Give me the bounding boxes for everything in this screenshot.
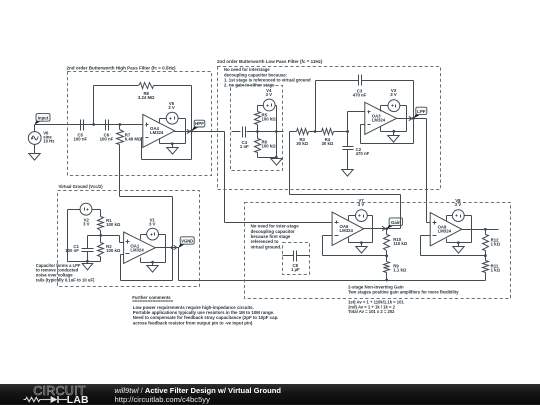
voltage source V4 — [263, 99, 275, 111]
wire bias node to box edge — [258, 131, 284, 133]
svg-text:will9twl / Active Filter Desig: will9twl / Active Filter Design w/ Virtu… — [115, 386, 282, 395]
node OA4 supply ground — [171, 142, 174, 145]
wire V5 to V- loop — [160, 119, 186, 144]
label C1 — [65, 244, 79, 253]
box C8 note — [283, 243, 310, 275]
voltage source V5 — [166, 112, 178, 124]
voltage source V3 — [388, 100, 400, 112]
wire R3 to R4 — [309, 131, 322, 133]
capacitor C6 — [106, 120, 109, 131]
svg-text:3.24 MΩ: 3.24 MΩ — [138, 95, 155, 100]
svg-text:100 kΩ: 100 kΩ — [262, 117, 277, 122]
label C6 — [100, 133, 114, 142]
label R7 — [125, 133, 142, 142]
ground bias network — [271, 158, 282, 166]
op-amp OA3 — [365, 102, 397, 134]
svg-text:30 kΩ: 30 kΩ — [296, 141, 308, 146]
wire OA8 feedback — [421, 236, 486, 256]
voltage source V7 — [356, 210, 368, 222]
wire OA8 V+ pin — [447, 216, 453, 222]
svg-text:http://circuitlab.com/c4bc5yy: http://circuitlab.com/c4bc5yy — [115, 395, 211, 404]
label LPF box — [217, 59, 323, 64]
wire OA3 V+ pin — [381, 106, 389, 112]
ground below C2 — [342, 170, 353, 177]
node OA1 supply ground — [151, 261, 154, 264]
svg-text:470 nF: 470 nF — [353, 93, 367, 98]
svg-text:================: ================ — [132, 299, 173, 304]
svg-text:30 kΩ: 30 kΩ — [321, 141, 333, 146]
wire OA1 feedback — [121, 248, 173, 281]
wire HPF out down to OA6 — [225, 132, 333, 223]
wire V7 to V- loop — [349, 216, 373, 243]
svg-text:10 Hz: 10 Hz — [43, 138, 54, 143]
label OA4 — [150, 126, 164, 135]
logo CIRCUIT text — [33, 384, 86, 398]
capacitor C2 — [343, 132, 354, 150]
wire OA1 V+ pin — [141, 235, 147, 240]
op-amp OA1 — [124, 232, 156, 263]
flag VGND — [174, 237, 195, 250]
box 2-stage gain — [245, 203, 511, 299]
label R4 — [321, 137, 333, 146]
footer title — [115, 386, 282, 395]
resistor R11 — [483, 256, 489, 281]
wire OA6 feedback — [323, 236, 387, 256]
node OA1 output junction — [171, 246, 174, 249]
node gnd rail — [86, 260, 89, 263]
op-amp OA6 — [332, 212, 364, 245]
wire OA4 V+ pin — [160, 119, 167, 124]
label R1 — [106, 218, 121, 227]
note text LPF — [224, 67, 311, 87]
wire OA1 output — [156, 247, 179, 249]
resistor R12 — [483, 230, 489, 256]
ground below OA1 — [147, 263, 158, 273]
label OA8 — [438, 225, 452, 234]
node OA4 output junction — [190, 130, 193, 133]
label V6 — [43, 131, 54, 144]
label R3 — [296, 137, 308, 146]
svg-text:Two stages positive gain ampli: Two stages positive gain amplifiers for … — [348, 290, 459, 295]
wire OA6 V+ pin — [349, 216, 356, 221]
flag Gain — [382, 218, 403, 231]
box 2nd order Butterworth Low Pass Filter — [218, 67, 441, 190]
label R12 — [491, 237, 501, 246]
label C2 — [356, 147, 370, 156]
logo wire-resistor-diode glyph — [24, 396, 68, 403]
wire R3 left lead — [290, 131, 297, 133]
logo LAB text — [67, 395, 89, 405]
label R2 — [106, 244, 121, 253]
footer bar — [0, 384, 540, 405]
wire up to OA3 + — [348, 112, 365, 132]
wire V2 right to R1 — [92, 210, 101, 217]
note text gain box — [251, 224, 300, 250]
wire V4 left to R5 — [258, 106, 264, 112]
label C4 — [240, 140, 249, 149]
ground below V6 — [29, 154, 40, 161]
ground below OA4 — [167, 144, 178, 155]
svg-text:470 nF: 470 nF — [356, 151, 370, 156]
svg-text:LM324: LM324 — [130, 248, 144, 253]
wire V8 to V- loop — [447, 216, 472, 243]
wire V1 to V- loop — [141, 235, 166, 263]
wire V2 left to gnd rail — [68, 210, 101, 262]
svg-text:110 kΩ: 110 kΩ — [393, 241, 408, 246]
resistor R10 — [384, 229, 390, 256]
svg-text:3 V: 3 V — [83, 221, 90, 226]
voltage source V8 — [452, 210, 464, 222]
wire C4 to bias node — [247, 131, 258, 133]
svg-text:2nd order Butterworth Low Pass: 2nd order Butterworth Low Pass Filter (f… — [217, 59, 323, 64]
node R12-R11 junction — [484, 254, 487, 257]
label HPF box — [67, 66, 177, 71]
label OA3 — [372, 114, 386, 123]
resistor R8 — [139, 83, 154, 89]
label R10 — [393, 237, 408, 246]
svg-text:100 kΩ: 100 kΩ — [106, 222, 121, 227]
flag LPF — [409, 107, 427, 121]
svg-text:100 kΩ: 100 kΩ — [262, 144, 277, 149]
resistor R5 — [255, 112, 261, 132]
resistor R7 — [117, 125, 124, 145]
svg-text:100 kΩ: 100 kΩ — [106, 248, 121, 253]
label R11 — [491, 263, 501, 272]
svg-text:Virtual Ground (Vcc/2): Virtual Ground (Vcc/2) — [59, 184, 104, 189]
resistor R2 — [98, 236, 104, 262]
wire C3 to output node — [362, 81, 414, 119]
wire junction to R8 — [94, 86, 139, 125]
footer url — [115, 395, 211, 404]
svg-text:LAB: LAB — [67, 395, 89, 405]
ground VG divider — [82, 262, 93, 270]
box bias network — [231, 86, 283, 171]
svg-text:VGND: VGND — [181, 238, 193, 243]
wire R4 to OA3 node — [334, 131, 348, 133]
wire OA6 output — [364, 228, 401, 230]
svg-text:3 V: 3 V — [266, 92, 273, 97]
svg-text:1.1 kΩ: 1.1 kΩ — [393, 268, 407, 273]
voltage source V6 (sine) — [28, 132, 41, 154]
svg-text:LM324: LM324 — [438, 229, 452, 234]
label C5 — [73, 133, 87, 142]
flag Input — [35, 114, 50, 125]
wire input net — [35, 125, 143, 133]
node OA6 output junction — [385, 227, 388, 230]
node OA8 output junction — [484, 228, 487, 231]
wire OA8 output — [462, 229, 499, 231]
node C5-C6 junction — [92, 123, 95, 126]
svg-text:across feedback resistor from: across feedback resistor from output pin… — [133, 320, 253, 325]
svg-text:3 V: 3 V — [390, 92, 397, 97]
label V1 — [149, 217, 156, 226]
box Virtual Ground — [58, 191, 200, 287]
node C3 tap — [314, 130, 317, 133]
svg-text:Total Av = 101 x 2 = 202: Total Av = 101 x 2 = 202 — [348, 309, 395, 314]
wire C2 to ground — [347, 150, 349, 170]
note text capacitor LPF — [36, 263, 95, 283]
flag HPF — [187, 120, 205, 134]
label R8 — [138, 91, 155, 100]
resistor R3 — [297, 129, 309, 135]
wire VGND distribution — [179, 248, 486, 281]
capacitor C8 — [283, 251, 310, 262]
wire R6 to ground — [258, 153, 277, 158]
wire OA3 feedback — [361, 119, 414, 144]
wire OA3 output — [397, 118, 427, 120]
svg-text:3 V: 3 V — [358, 202, 365, 207]
svg-text:100 nF: 100 nF — [73, 137, 87, 142]
svg-text:2nd order Butterworth High Pas: 2nd order Butterworth High Pass Filter (… — [67, 66, 177, 71]
ground below OA6 — [356, 243, 367, 254]
svg-text:HPF: HPF — [195, 121, 204, 126]
label R6 — [262, 140, 277, 149]
text gain section — [348, 284, 459, 294]
wire LPF input — [232, 131, 241, 133]
node V4 return on bias wire — [275, 130, 278, 133]
node R10-R9 junction — [385, 255, 388, 258]
svg-text:3 V: 3 V — [149, 221, 156, 226]
label R9 — [393, 264, 407, 273]
label R5 — [262, 113, 277, 122]
label C8 — [291, 263, 300, 272]
svg-text:1 kΩ: 1 kΩ — [491, 267, 501, 272]
label V4 — [266, 88, 273, 97]
label V8 — [455, 198, 462, 207]
ground below OA8 — [453, 243, 464, 254]
capacitor C3 — [359, 75, 362, 86]
node OA6 supply ground — [360, 241, 363, 244]
label V2 — [83, 217, 90, 226]
op-amp OA8 — [430, 213, 462, 246]
wire R7 to VGND — [120, 145, 173, 248]
resistor R6 — [255, 132, 261, 153]
node bias ground — [275, 156, 278, 159]
svg-text:LM324: LM324 — [150, 130, 164, 135]
svg-text:1 µF: 1 µF — [291, 267, 300, 272]
svg-text:100 nF: 100 nF — [100, 137, 114, 142]
voltage source V1 — [147, 228, 159, 240]
node OA3 supply ground — [393, 130, 396, 133]
resistor R9 — [384, 256, 390, 281]
text gain calc — [348, 300, 404, 315]
svg-text:rails (typically 0.1uF to 10 u: rails (typically 0.1uF to 10 uF) — [36, 278, 95, 283]
svg-text:Need to compensate for feedbac: Need to compensate for feedback stray ca… — [133, 315, 279, 320]
wire V3 to V- loop — [381, 106, 407, 132]
svg-text:Input: Input — [38, 115, 49, 120]
node OA3 output junction — [412, 117, 415, 120]
svg-text:6.49 MΩ: 6.49 MΩ — [125, 137, 142, 142]
wire R8 to output node — [154, 86, 192, 132]
wire OA4 feedback (- to output) — [142, 132, 192, 160]
wire V4 right down — [276, 106, 277, 158]
ground below OA3 — [388, 132, 399, 143]
svg-text:Gain: Gain — [391, 220, 401, 225]
resistor R4 — [322, 129, 334, 135]
voltage source V2 — [80, 203, 92, 215]
svg-text:LPF: LPF — [417, 109, 426, 114]
node C6-R7 junction — [119, 123, 122, 126]
label V5 — [168, 101, 175, 110]
svg-text:3 V: 3 V — [168, 105, 175, 110]
label OA6 — [340, 224, 354, 233]
node bias divider — [256, 130, 259, 133]
svg-text:1 kΩ: 1 kΩ — [491, 241, 501, 246]
node R4-C2 junction — [346, 130, 349, 133]
text further comments — [132, 295, 278, 326]
node A divider mid — [99, 234, 102, 237]
capacitor C1 — [82, 236, 94, 262]
label OA1 — [130, 244, 144, 253]
label C3 — [353, 89, 367, 98]
svg-text:100 nF: 100 nF — [65, 248, 79, 253]
svg-text:LM324: LM324 — [372, 118, 386, 123]
resistor R1 — [98, 217, 104, 236]
capacitor C4 — [243, 127, 246, 138]
svg-text:3 V: 3 V — [455, 202, 462, 207]
wire C3 up — [316, 81, 359, 132]
wire Gain to LPF input riser — [290, 132, 401, 229]
wire LPF out down to OA8 — [427, 119, 431, 223]
box 2nd order Butterworth High Pass Filter — [68, 72, 212, 176]
op-amp OA4 — [143, 114, 175, 147]
capacitor C5 — [81, 120, 84, 131]
wire OA4 output — [175, 131, 225, 133]
label V3 — [390, 88, 397, 97]
wire node A — [88, 236, 124, 243]
svg-text:1 nF: 1 nF — [240, 144, 249, 149]
node R9 to VGND rail — [385, 279, 388, 282]
node OA8 supply ground — [457, 241, 460, 244]
label V7 — [358, 198, 365, 207]
svg-text:virtual ground.: virtual ground. — [251, 244, 282, 249]
label VG box — [59, 184, 104, 189]
svg-text:LM324: LM324 — [340, 228, 354, 233]
